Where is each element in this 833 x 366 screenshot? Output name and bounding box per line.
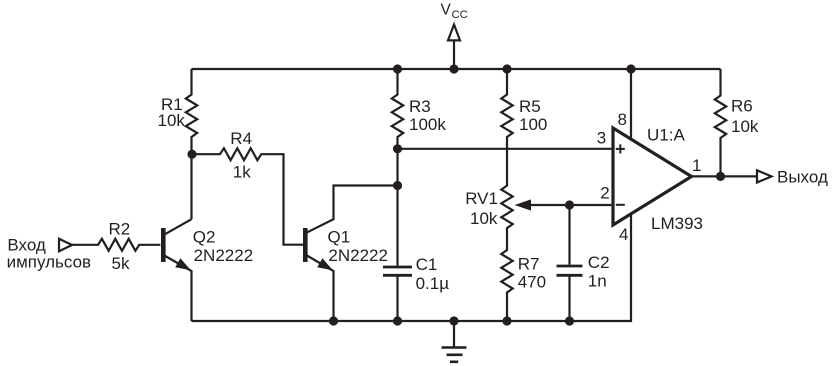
svg-text:10k: 10k <box>731 117 759 136</box>
svg-text:0.1µ: 0.1µ <box>416 274 450 293</box>
svg-text:CC: CC <box>452 9 468 21</box>
svg-text:5k: 5k <box>112 254 130 273</box>
svg-text:R3: R3 <box>409 97 431 116</box>
svg-text:4: 4 <box>619 225 628 244</box>
svg-text:Выход: Выход <box>777 167 828 186</box>
svg-text:R2: R2 <box>109 220 131 239</box>
svg-text:100: 100 <box>519 115 547 134</box>
svg-text:U1:A: U1:A <box>647 126 685 145</box>
svg-text:470: 470 <box>518 273 546 292</box>
svg-text:C2: C2 <box>588 253 610 272</box>
svg-text:Q2: Q2 <box>193 227 216 246</box>
svg-text:3: 3 <box>597 128 606 147</box>
svg-text:10k: 10k <box>470 209 498 228</box>
svg-text:2: 2 <box>600 183 609 202</box>
svg-text:R4: R4 <box>230 129 252 148</box>
svg-text:LM393: LM393 <box>651 214 703 233</box>
svg-text:RV1: RV1 <box>465 189 498 208</box>
svg-text:10k: 10k <box>158 111 186 130</box>
svg-text:8: 8 <box>618 110 627 129</box>
svg-text:C1: C1 <box>416 255 438 274</box>
svg-text:Q1: Q1 <box>328 227 351 246</box>
svg-text:R6: R6 <box>731 97 753 116</box>
svg-text:импульсов: импульсов <box>7 253 91 272</box>
svg-text:R7: R7 <box>518 255 540 274</box>
svg-text:V: V <box>441 1 452 18</box>
svg-text:1n: 1n <box>588 271 607 290</box>
svg-text:1k: 1k <box>233 163 251 182</box>
svg-text:2N2222: 2N2222 <box>194 246 254 265</box>
svg-text:1: 1 <box>692 156 701 175</box>
svg-text:2N2222: 2N2222 <box>328 246 388 265</box>
svg-text:R5: R5 <box>519 97 541 116</box>
svg-text:100k: 100k <box>409 115 446 134</box>
